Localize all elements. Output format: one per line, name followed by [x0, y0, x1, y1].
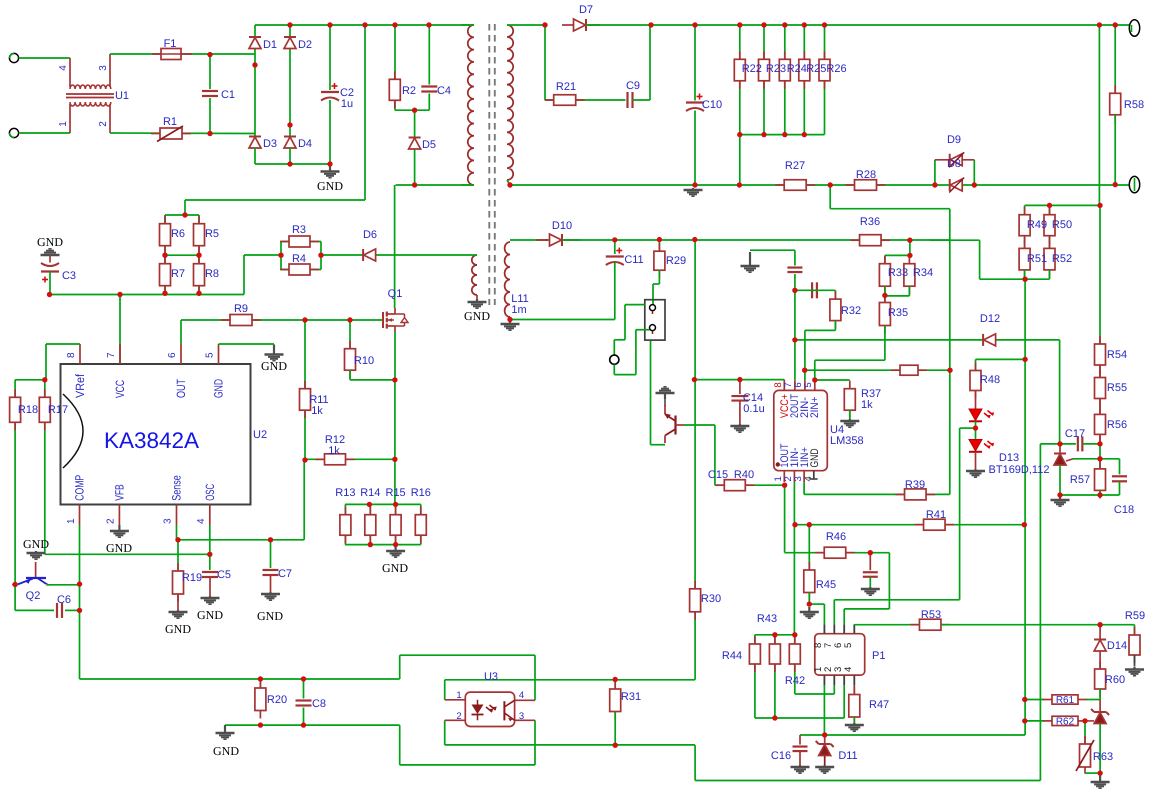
- wire: [177, 539, 305, 541]
- junction: [807, 522, 812, 527]
- wire: [65, 609, 80, 611]
- wire: [739, 25, 741, 135]
- resistor R22: [734, 51, 745, 89]
- transistor Q2 lead: [35, 562, 37, 577]
- diode D1: [249, 37, 261, 49]
- ground: [1091, 773, 1110, 788]
- resistor R38: [891, 365, 927, 375]
- resistor R45: [804, 562, 815, 601]
- wire: [445, 744, 695, 746]
- wire: [177, 540, 179, 571]
- svg-text:R29: R29: [666, 255, 686, 267]
- wire: [209, 554, 211, 572]
- wire: [980, 278, 1050, 280]
- wire: [658, 240, 660, 252]
- wire: [445, 679, 614, 681]
- junction: [907, 238, 912, 243]
- junction: [268, 537, 273, 542]
- resistor R33: [879, 256, 890, 295]
- resistor R35: [879, 295, 890, 334]
- resistor R37 lead: [849, 410, 851, 420]
- wire: [15, 609, 54, 611]
- svg-text:3: 3: [98, 65, 109, 71]
- svg-text:3: 3: [163, 518, 174, 524]
- IC U2 pin stub: [119, 344, 121, 364]
- svg-text:R56: R56: [1107, 419, 1127, 431]
- wire: [209, 55, 211, 134]
- wire: [808, 593, 810, 605]
- wire: [394, 25, 396, 110]
- diode D5: [409, 138, 421, 150]
- svg-text:U2: U2: [253, 429, 267, 441]
- wire: [80, 678, 400, 680]
- junction: [1022, 277, 1027, 282]
- svg-text:GND: GND: [37, 235, 63, 249]
- svg-text:4: 4: [843, 667, 854, 672]
- svg-text:4: 4: [519, 690, 524, 701]
- svg-text:R60: R60: [1105, 674, 1125, 686]
- resistor R27: [775, 180, 815, 191]
- svg-text:R10: R10: [354, 355, 374, 367]
- wire: [369, 504, 371, 544]
- wire: [1039, 444, 1041, 781]
- svg-text:C9: C9: [626, 80, 640, 92]
- svg-text:GND: GND: [165, 622, 191, 636]
- IC U2 pin stub: [209, 505, 211, 526]
- wire: [960, 427, 976, 429]
- svg-text:R39: R39: [905, 479, 925, 491]
- wire: [834, 290, 836, 299]
- svg-text:4: 4: [196, 518, 207, 524]
- ground: [800, 607, 819, 618]
- IC U2 pin stub: [79, 344, 81, 364]
- svg-text:D13: D13: [999, 452, 1019, 464]
- connector P2 pin2: [650, 325, 656, 331]
- optocoupler U3 LED: [472, 705, 484, 715]
- svg-text:R45: R45: [816, 579, 836, 591]
- junction: [761, 132, 766, 137]
- junction: [802, 368, 807, 373]
- svg-text:C8: C8: [312, 698, 326, 710]
- svg-text:R53: R53: [921, 609, 941, 621]
- wire: [1114, 115, 1116, 185]
- junction: [196, 253, 201, 258]
- junction: [426, 22, 431, 27]
- optocoupler U3 box: [465, 692, 514, 726]
- svg-text:C4: C4: [437, 85, 451, 97]
- transformer U1 windings: [70, 85, 111, 89]
- wire: [614, 374, 636, 376]
- resistor R24: [779, 51, 790, 89]
- resistor R19 lead: [177, 594, 179, 610]
- capacitor C17: [1076, 435, 1085, 452]
- svg-text:2: 2: [105, 518, 116, 524]
- varistor R1: [151, 126, 191, 142]
- wire: [694, 745, 696, 780]
- svg-text:GND: GND: [197, 608, 223, 622]
- wire: [1119, 459, 1121, 476]
- wire: [614, 240, 616, 254]
- svg-text:P1: P1: [872, 650, 885, 662]
- junction: [302, 457, 307, 462]
- ground: [791, 765, 810, 773]
- wire: [805, 369, 950, 371]
- wire: [254, 49, 256, 65]
- wire: [1024, 279, 1026, 735]
- wire: [784, 485, 786, 553]
- svg-text:GND: GND: [464, 309, 490, 323]
- IC U4 pin stub 1: [783, 471, 785, 482]
- svg-text:R59: R59: [1125, 610, 1145, 622]
- svg-text:GND: GND: [382, 561, 408, 575]
- capacitor C16 lead: [799, 735, 801, 746]
- svg-text:R30: R30: [701, 593, 721, 605]
- wire: [803, 482, 805, 494]
- svg-text:2IN+: 2IN+: [809, 397, 821, 419]
- wire: [399, 725, 401, 765]
- junction: [822, 732, 827, 737]
- connector J1 AC input pin2: [9, 128, 18, 137]
- junction: [287, 122, 292, 127]
- wire: [44, 380, 46, 555]
- wire: [243, 255, 245, 295]
- wire: [1085, 772, 1100, 774]
- wire: [614, 339, 625, 341]
- junction: [1022, 718, 1027, 723]
- optocoupler U3 light arrows: [486, 705, 496, 712]
- wire: [185, 199, 365, 201]
- resistor R55: [1095, 370, 1106, 407]
- wire: [805, 329, 836, 331]
- svg-text:R32: R32: [841, 305, 861, 317]
- wire: [289, 148, 291, 164]
- connector P1 bottom stub pin1: [823, 675, 825, 685]
- capacitor C18: [1111, 474, 1128, 483]
- resistor R46: [815, 547, 855, 558]
- diode D8: [949, 178, 964, 193]
- svg-text:R48: R48: [980, 374, 1000, 386]
- diode D12: [983, 334, 996, 346]
- resistor R25: [799, 51, 810, 89]
- svg-text:R16: R16: [411, 487, 431, 499]
- wire: [47, 584, 80, 586]
- svg-text:R5: R5: [205, 228, 219, 240]
- resistor R14: [365, 507, 376, 544]
- junction: [367, 502, 372, 507]
- svg-text:R8: R8: [205, 268, 219, 280]
- optocoupler U3 transistor: [503, 701, 505, 720]
- wire: [303, 679, 305, 725]
- ground: [386, 545, 405, 557]
- wire: [649, 25, 651, 100]
- wire: [1099, 724, 1101, 773]
- resistor R32: [830, 291, 841, 329]
- resistor R16: [415, 507, 426, 544]
- junction: [1097, 622, 1102, 627]
- junction: [613, 677, 618, 682]
- junction: [692, 377, 697, 382]
- capacitor C7: [262, 568, 280, 577]
- diode D9: [949, 152, 964, 167]
- wire: [844, 608, 889, 610]
- wire: [803, 25, 805, 135]
- svg-text:OSC: OSC: [203, 484, 217, 501]
- junction: [1057, 441, 1062, 446]
- junction: [761, 22, 766, 27]
- junction: [175, 537, 180, 542]
- wire: [225, 724, 400, 726]
- wire: [635, 330, 637, 375]
- wire: [209, 525, 211, 554]
- svg-text:3: 3: [519, 711, 524, 722]
- wire: [651, 444, 666, 446]
- capacitor C19 lead: [869, 553, 871, 571]
- svg-text:GND: GND: [212, 379, 226, 398]
- junction: [802, 22, 807, 27]
- junction: [77, 608, 82, 613]
- resistor R58: [1110, 85, 1121, 123]
- wire: [254, 25, 256, 36]
- thyristor D13 BT169D: [1054, 454, 1066, 466]
- wire: [14, 380, 16, 585]
- transformer T1 secondary winding: [507, 25, 513, 180]
- wire: [695, 780, 1040, 782]
- junction: [1057, 492, 1062, 497]
- IC U4 pin stub 3: [803, 471, 805, 482]
- power flag: [656, 387, 675, 399]
- junction: [392, 377, 397, 382]
- svg-text:R52: R52: [1052, 253, 1072, 265]
- resistor R12: [316, 454, 355, 465]
- wire: [280, 242, 282, 270]
- svg-text:R62: R62: [1056, 716, 1075, 727]
- connector P1 top stub pin8: [823, 624, 825, 633]
- svg-text:R1: R1: [163, 116, 177, 128]
- junction: [258, 676, 263, 681]
- svg-text:D3: D3: [263, 138, 277, 150]
- wire: [165, 214, 199, 216]
- resistor R34: [904, 256, 915, 295]
- wire: [614, 262, 616, 320]
- wire: [694, 379, 784, 381]
- connector P2 pin1: [650, 305, 656, 311]
- resistor R10: [345, 341, 356, 379]
- svg-text:R40: R40: [734, 469, 754, 481]
- wire: [794, 635, 796, 694]
- wire: [740, 134, 825, 136]
- wire: [1040, 443, 1078, 445]
- wire: [684, 424, 715, 426]
- capacitor C1: [201, 89, 219, 98]
- svg-text:R25: R25: [806, 63, 826, 75]
- wire: [562, 239, 950, 241]
- wire: [444, 720, 446, 745]
- svg-text:KA3842A: KA3842A: [104, 428, 199, 453]
- wire: [15, 379, 46, 381]
- junction: [1022, 357, 1027, 362]
- wire: [400, 764, 535, 766]
- wire: [395, 109, 430, 111]
- resistor R29: [654, 243, 665, 278]
- wire: [884, 326, 886, 361]
- ground: [169, 610, 188, 618]
- wire: [930, 239, 980, 241]
- wire: [1086, 699, 1100, 701]
- resistor R55-R56 link: [1099, 399, 1101, 415]
- wire: [829, 185, 831, 209]
- wire: [259, 679, 261, 688]
- junction: [301, 676, 306, 681]
- LED D15: [969, 409, 982, 421]
- wire: [888, 553, 890, 609]
- wire: [750, 249, 795, 251]
- svg-text:R15: R15: [386, 487, 406, 499]
- transistor Q2: [12, 578, 52, 586]
- wire: [350, 379, 395, 381]
- resistor R15: [390, 507, 401, 544]
- IC U4 pin stub 6: [804, 380, 806, 390]
- wire: [815, 359, 885, 361]
- transformer aux lead: [476, 295, 478, 300]
- svg-text:BT169D,112: BT169D,112: [989, 464, 1050, 476]
- svg-text:5: 5: [803, 382, 814, 387]
- thyristor D15: [1091, 709, 1109, 724]
- wire: [1114, 25, 1116, 93]
- IC U2 pin stub: [176, 505, 178, 526]
- wire: [184, 200, 186, 215]
- junction: [393, 542, 398, 547]
- connector P1 top stub pin6: [843, 624, 845, 633]
- wire: [376, 254, 477, 256]
- junction: [822, 22, 827, 27]
- resistor R7: [160, 256, 171, 294]
- junction: [42, 377, 47, 382]
- ground: [468, 299, 487, 308]
- svg-text:Q2: Q2: [26, 590, 41, 602]
- IC U2 pin stub: [118, 505, 120, 526]
- wire: [119, 295, 121, 365]
- junction: [507, 317, 512, 322]
- resistor R51: [1019, 240, 1030, 278]
- resistor R37: [844, 381, 855, 419]
- ground: [265, 345, 284, 361]
- svg-text:1k: 1k: [328, 445, 340, 457]
- wire: [1119, 482, 1121, 496]
- wire: [219, 343, 275, 345]
- wire: [270, 540, 272, 568]
- resistor R6: [160, 216, 171, 254]
- capacitor C13: [810, 281, 819, 299]
- svg-text:6: 6: [167, 352, 178, 358]
- resistor R39: [896, 489, 936, 500]
- wire: [614, 712, 616, 746]
- svg-text:4: 4: [803, 476, 814, 481]
- thyristor lead: [1099, 700, 1101, 713]
- svg-text:R34: R34: [913, 267, 933, 279]
- wire: [50, 294, 245, 296]
- wire: [833, 600, 835, 625]
- wire: [795, 339, 1060, 341]
- svg-text:R58: R58: [1124, 99, 1144, 111]
- svg-text:R54: R54: [1107, 349, 1127, 361]
- resistor R4: [280, 264, 319, 275]
- wire: [935, 159, 974, 161]
- wire: [614, 679, 695, 681]
- wire: [281, 269, 321, 271]
- svg-text:R36: R36: [860, 216, 880, 228]
- capacitor C10: [685, 94, 705, 112]
- wire: [624, 305, 626, 340]
- svg-text:R3: R3: [292, 224, 306, 236]
- wire: [755, 634, 795, 636]
- svg-text:R6: R6: [171, 228, 185, 240]
- resistor R47 lead2: [853, 717, 855, 724]
- wire: [694, 240, 696, 680]
- diode D6: [363, 249, 376, 261]
- transformer T1 aux winding: [472, 255, 477, 295]
- wire: [1059, 465, 1061, 495]
- junction: [318, 253, 323, 258]
- wire: [973, 160, 975, 185]
- junction: [542, 22, 547, 27]
- junction: [1097, 22, 1102, 27]
- wire: [510, 184, 1129, 186]
- capacitor C8: [295, 699, 313, 708]
- wire: [854, 624, 919, 626]
- wire: [613, 340, 615, 355]
- wire: [394, 332, 396, 380]
- svg-text:1: 1: [66, 518, 77, 524]
- testpoint circle: [610, 355, 619, 364]
- svg-text:VRef: VRef: [73, 373, 87, 398]
- svg-text:R26: R26: [826, 63, 846, 75]
- wire: [289, 125, 291, 137]
- resistor R49: [1019, 207, 1030, 244]
- resistor R59 lead: [1134, 655, 1136, 666]
- junction: [792, 522, 797, 527]
- junction: [692, 22, 697, 27]
- junction: [252, 62, 257, 67]
- wire: [823, 604, 825, 624]
- wire: [1025, 720, 1044, 722]
- wire: [345, 544, 421, 546]
- wire: [804, 330, 806, 380]
- junction: [692, 182, 697, 187]
- wire: [975, 359, 977, 370]
- wire: [885, 295, 910, 297]
- wire: [908, 286, 910, 296]
- wire: [507, 24, 545, 26]
- svg-text:C6: C6: [57, 594, 71, 606]
- wire: [774, 635, 776, 718]
- svg-text:C10: C10: [702, 99, 722, 111]
- svg-text:R9: R9: [234, 303, 248, 315]
- junction: [12, 582, 17, 587]
- svg-text:C3: C3: [62, 270, 76, 282]
- svg-text:OUT: OUT: [174, 379, 188, 398]
- svg-text:R31: R31: [621, 691, 641, 703]
- IC U2 pin stub: [218, 344, 220, 364]
- junction: [327, 161, 332, 166]
- transformer U1 leads: [69, 58, 71, 87]
- resistor R21: [545, 95, 585, 106]
- junction: [1097, 203, 1102, 208]
- ground: [840, 419, 859, 427]
- svg-text:GND: GND: [23, 537, 49, 551]
- wire: [843, 609, 845, 625]
- junction: [737, 132, 742, 137]
- resistor R50: [1044, 207, 1055, 244]
